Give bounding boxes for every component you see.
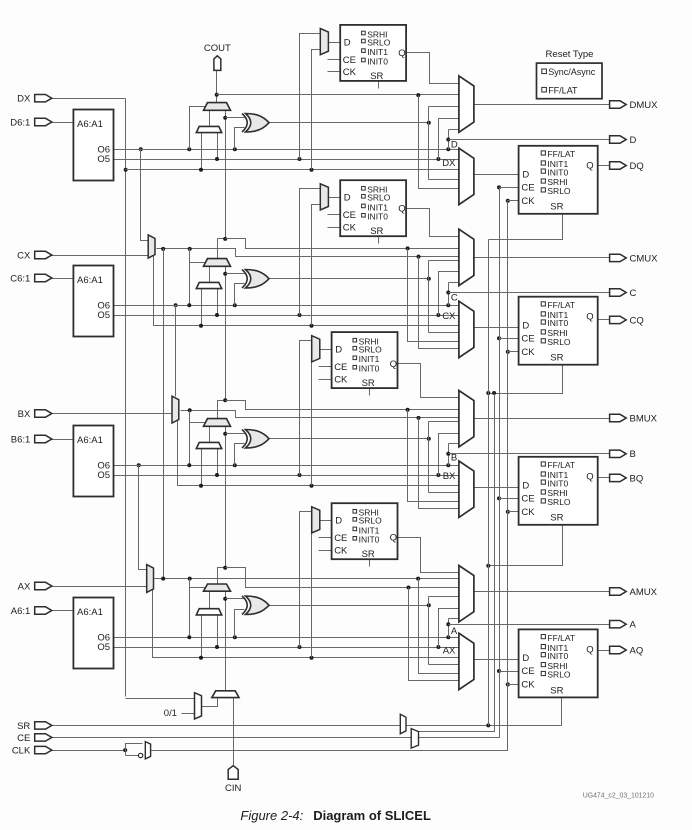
svg-text:A6:1: A6:1 <box>11 606 31 617</box>
svg-text:D: D <box>522 321 529 332</box>
svg-text:CLK: CLK <box>12 746 31 757</box>
svg-text:D: D <box>344 193 351 204</box>
svg-text:SRLO: SRLO <box>359 516 383 526</box>
svg-text:AMUX: AMUX <box>630 587 658 598</box>
svg-text:D: D <box>335 516 342 527</box>
svg-text:INIT0: INIT0 <box>547 478 568 488</box>
svg-text:O5: O5 <box>97 154 110 165</box>
svg-text:A6:A1: A6:A1 <box>77 607 103 618</box>
svg-text:C6:1: C6:1 <box>10 273 30 284</box>
svg-text:DX: DX <box>17 94 31 105</box>
svg-text:INIT0: INIT0 <box>367 212 388 222</box>
svg-text:SRLO: SRLO <box>367 193 391 203</box>
svg-text:CK: CK <box>521 196 535 207</box>
svg-text:CK: CK <box>521 347 535 358</box>
svg-text:AX: AX <box>18 581 31 592</box>
svg-text:0/1: 0/1 <box>164 708 177 719</box>
svg-text:B6:1: B6:1 <box>11 434 31 445</box>
svg-text:INIT0: INIT0 <box>359 364 380 374</box>
svg-text:Q: Q <box>398 48 405 59</box>
svg-text:D6:1: D6:1 <box>10 117 30 128</box>
svg-text:CE: CE <box>17 733 30 744</box>
svg-text:INIT0: INIT0 <box>547 318 568 328</box>
svg-text:Q: Q <box>390 359 397 370</box>
svg-text:D: D <box>344 37 351 48</box>
svg-text:SRLO: SRLO <box>547 497 571 507</box>
svg-text:D: D <box>522 170 529 181</box>
svg-text:SRLO: SRLO <box>367 37 391 47</box>
svg-text:CE: CE <box>334 362 347 373</box>
svg-text:SRLO: SRLO <box>547 670 571 680</box>
svg-text:AX: AX <box>443 645 456 656</box>
svg-text:Q: Q <box>398 203 405 214</box>
svg-text:CE: CE <box>521 183 534 194</box>
svg-text:DQ: DQ <box>630 161 644 172</box>
svg-text:SR: SR <box>550 202 563 213</box>
svg-text:D: D <box>630 135 637 146</box>
svg-text:D: D <box>522 653 529 664</box>
svg-text:BX: BX <box>443 471 456 482</box>
svg-text:B: B <box>630 449 636 460</box>
svg-text:D: D <box>522 481 529 492</box>
svg-text:A: A <box>451 626 458 637</box>
svg-text:D: D <box>451 140 458 151</box>
svg-text:B: B <box>451 453 457 464</box>
svg-text:FF/LAT: FF/LAT <box>547 460 575 470</box>
svg-text:SR: SR <box>370 71 383 82</box>
svg-text:CX: CX <box>17 250 31 261</box>
svg-text:CE: CE <box>334 533 347 544</box>
svg-text:CK: CK <box>521 680 535 691</box>
svg-text:SR: SR <box>362 549 375 560</box>
svg-text:SR: SR <box>370 226 383 237</box>
svg-text:BX: BX <box>18 409 31 420</box>
svg-text:CK: CK <box>334 546 348 557</box>
svg-text:CK: CK <box>334 374 348 385</box>
svg-text:DMUX: DMUX <box>630 100 659 111</box>
svg-text:Q: Q <box>586 472 593 483</box>
svg-text:Q: Q <box>586 644 593 655</box>
svg-text:AQ: AQ <box>630 645 644 656</box>
svg-text:FF/LAT: FF/LAT <box>547 633 575 643</box>
svg-text:Diagram of SLICEL: Diagram of SLICEL <box>313 808 431 823</box>
svg-text:CK: CK <box>521 507 535 518</box>
svg-text:SR: SR <box>17 721 30 732</box>
svg-text:Sync/Async: Sync/Async <box>548 67 596 77</box>
svg-text:C: C <box>630 288 637 299</box>
svg-text:A6:A1: A6:A1 <box>77 275 103 286</box>
svg-text:A: A <box>630 620 637 631</box>
svg-text:Figure 2-4:: Figure 2-4: <box>240 808 303 823</box>
svg-text:INIT0: INIT0 <box>359 535 380 545</box>
svg-text:FF/LAT: FF/LAT <box>548 85 578 95</box>
svg-text:INIT0: INIT0 <box>547 651 568 661</box>
svg-text:BMUX: BMUX <box>630 413 658 424</box>
svg-text:CE: CE <box>521 494 534 505</box>
svg-text:BQ: BQ <box>630 473 644 484</box>
svg-text:A6:A1: A6:A1 <box>77 119 103 130</box>
svg-text:CQ: CQ <box>630 315 644 326</box>
svg-text:SR: SR <box>550 513 563 524</box>
svg-text:O5: O5 <box>97 310 110 321</box>
svg-text:SR: SR <box>550 353 563 364</box>
svg-text:CE: CE <box>343 55 356 66</box>
svg-text:CK: CK <box>343 67 357 78</box>
svg-text:FF/LAT: FF/LAT <box>547 149 575 159</box>
svg-text:A6:A1: A6:A1 <box>77 435 103 446</box>
svg-text:SR: SR <box>362 378 375 389</box>
svg-text:FF/LAT: FF/LAT <box>547 300 575 310</box>
svg-text:Q: Q <box>586 161 593 172</box>
svg-text:CK: CK <box>343 223 357 234</box>
svg-text:O5: O5 <box>97 470 110 481</box>
svg-text:D: D <box>335 345 342 356</box>
svg-text:SR: SR <box>550 685 563 696</box>
svg-text:UG474_c2_03_101210: UG474_c2_03_101210 <box>583 792 654 799</box>
svg-text:C: C <box>451 293 458 304</box>
svg-text:INIT0: INIT0 <box>367 56 388 66</box>
svg-text:Q: Q <box>586 312 593 323</box>
svg-text:Q: Q <box>390 532 397 543</box>
svg-text:COUT: COUT <box>204 43 231 54</box>
svg-text:SRLO: SRLO <box>547 337 571 347</box>
svg-text:CE: CE <box>521 334 534 345</box>
svg-text:SRLO: SRLO <box>359 345 383 355</box>
svg-text:SRLO: SRLO <box>547 186 571 196</box>
svg-text:CMUX: CMUX <box>630 253 659 264</box>
svg-text:Reset Type: Reset Type <box>546 49 594 60</box>
svg-text:CX: CX <box>442 311 456 322</box>
svg-text:DX: DX <box>442 158 456 169</box>
svg-text:CE: CE <box>521 666 534 677</box>
svg-text:CE: CE <box>343 210 356 221</box>
svg-text:CIN: CIN <box>225 783 242 794</box>
svg-text:INIT0: INIT0 <box>547 167 568 177</box>
svg-text:O5: O5 <box>97 642 110 653</box>
